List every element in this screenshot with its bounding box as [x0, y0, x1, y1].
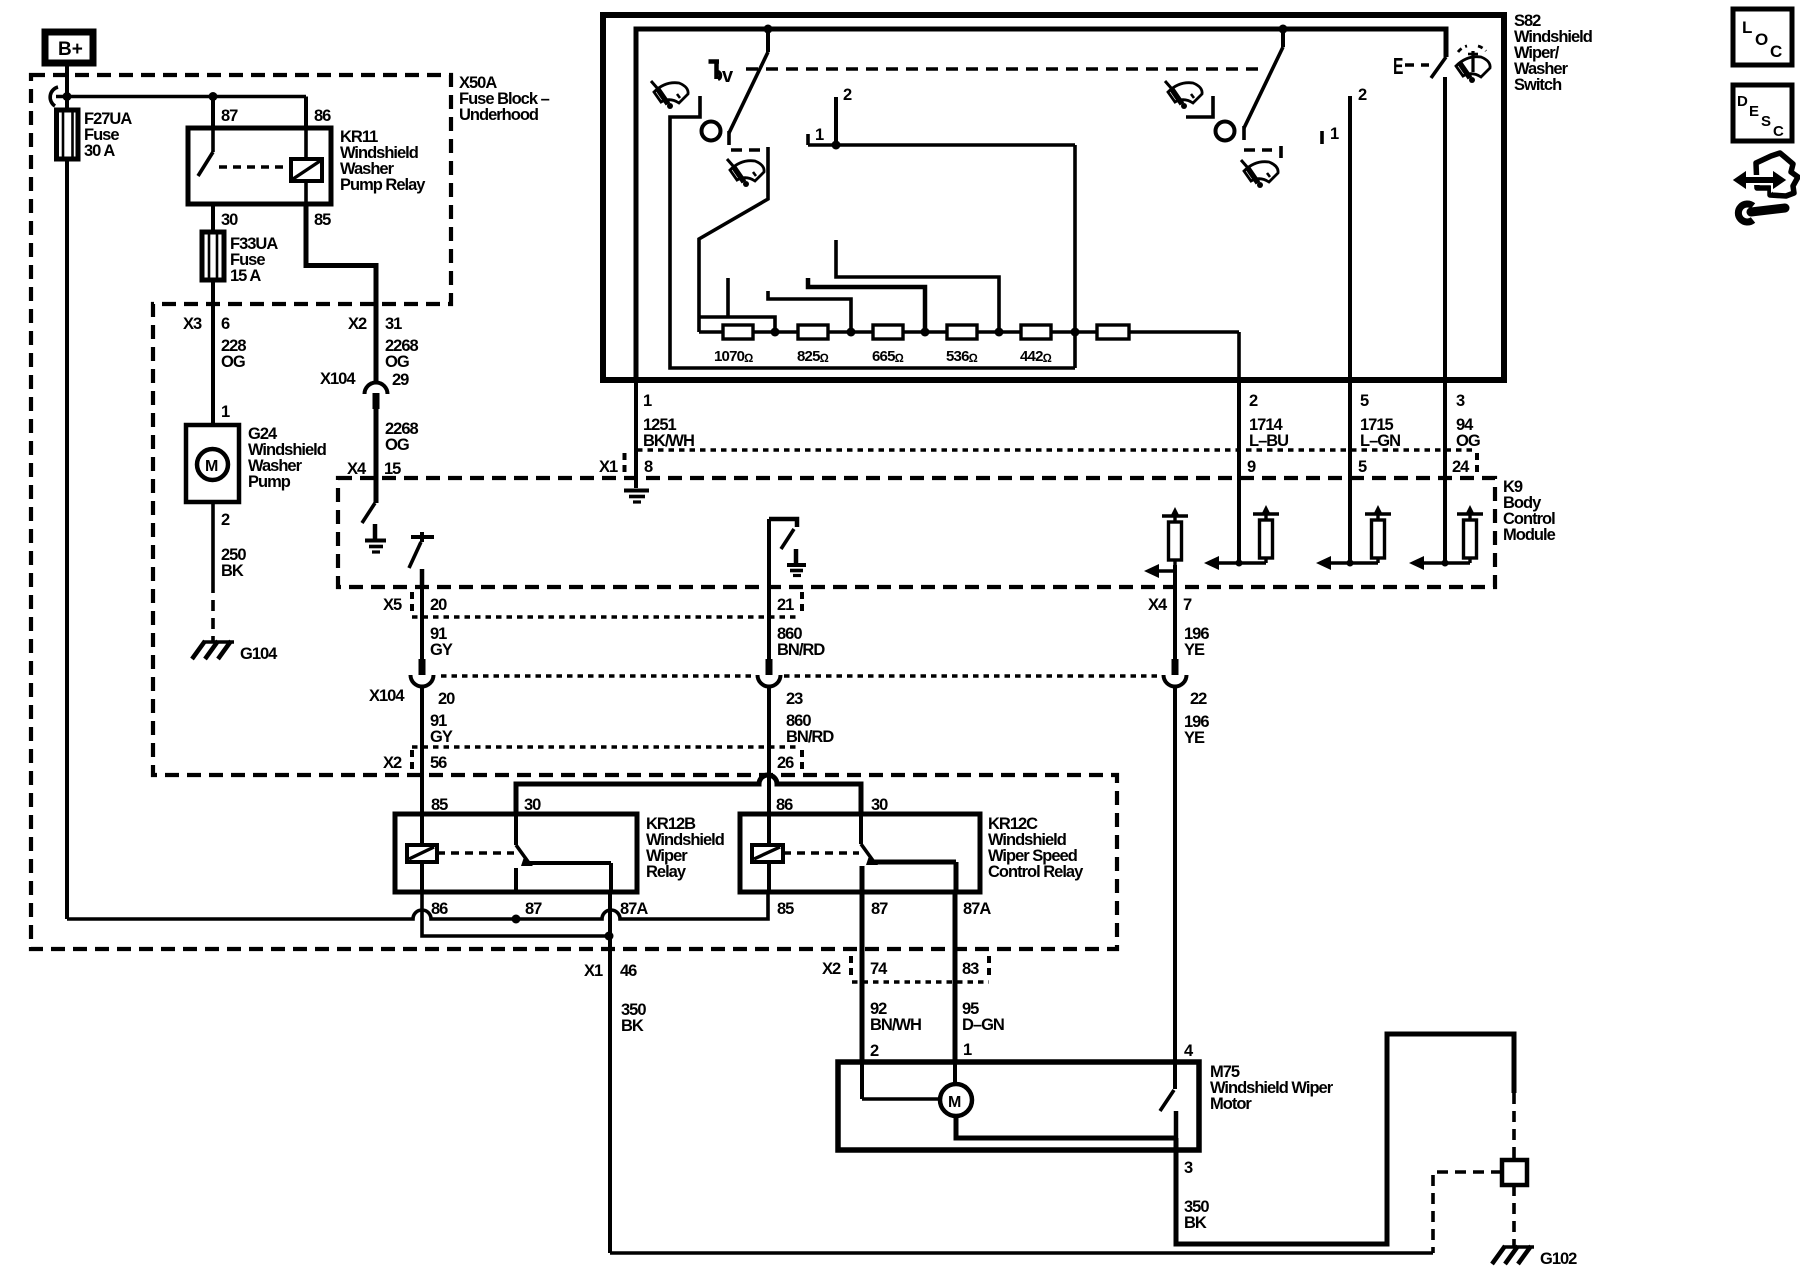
svg-text:83: 83: [962, 960, 979, 978]
node washer spray icon: [1456, 46, 1490, 83]
svg-text:1: 1: [815, 126, 824, 144]
svg-text:X104: X104: [369, 687, 405, 705]
node rail junction B: [847, 328, 856, 337]
wire KR11 pin 85 to X2-31: [306, 204, 376, 382]
svg-text:20: 20: [430, 596, 447, 614]
node rail junction E: [1071, 328, 1080, 337]
svg-text:Module: Module: [1503, 526, 1556, 544]
node junction KR12B 87 on feed rail: [512, 915, 521, 924]
resistor 665 ohm: [872, 325, 904, 365]
node BCM input pin 5 with pullup: [1316, 505, 1391, 570]
node wiper icon low: [1165, 81, 1202, 109]
motor M75 windshield wiper motor: [838, 1042, 1334, 1150]
wire connector plane dotted X5 row: [412, 615, 800, 619]
ground BCM internal for 1251: [624, 491, 649, 503]
node INT position dashes switch2: [1244, 146, 1281, 158]
node G102 ring terminal square: [1502, 1160, 1527, 1185]
relay KR11 windshield washer pump relay: [188, 107, 426, 229]
node wiper icon wash2: [1241, 160, 1278, 188]
svg-text:C: C: [1770, 42, 1782, 61]
wire 860 BN/RD lower segment: [769, 687, 834, 814]
svg-text:D: D: [1737, 93, 1748, 110]
icon LOC box: [1733, 9, 1792, 65]
wire ladder tap riser to rail junction E: [1073, 145, 1077, 368]
svg-text:X3: X3: [183, 315, 202, 333]
resistor 442 ohm: [1020, 325, 1052, 365]
svg-text:56: 56: [430, 754, 447, 772]
relay KR12B windshield wiper relay: [395, 796, 724, 918]
node X5 pin 21 label row: [777, 592, 802, 616]
svg-text:BK: BK: [621, 1017, 644, 1035]
wire feed rail hook (page continuation arc): [50, 87, 58, 106]
svg-text:Underhood: Underhood: [459, 106, 538, 124]
svg-text:BN/RD: BN/RD: [777, 641, 825, 659]
wire S82 pin 1 to BCM ground 1251 BK/WH: [636, 380, 694, 488]
resistor 1070 ohm: [714, 325, 753, 365]
svg-text:O: O: [1755, 30, 1768, 49]
svg-text:v: v: [722, 65, 734, 87]
svg-text:2: 2: [1358, 86, 1367, 104]
svg-text:86: 86: [431, 900, 448, 918]
wire ladder tap C: [808, 278, 925, 332]
switch S82 wiper rotary switch 1: [729, 29, 768, 145]
node BCM input pin 9 with pullup: [1204, 505, 1279, 570]
svg-text:G102: G102: [1540, 1250, 1577, 1268]
svg-text:X2: X2: [383, 754, 402, 772]
node junction B+ bus / feed rail: [63, 92, 72, 101]
wire KR12B 87A down to X1-46: [608, 892, 612, 1253]
node low contact stub: [1186, 96, 1213, 117]
svg-text:BN/RD: BN/RD: [786, 728, 834, 746]
svg-text:X1: X1: [584, 962, 603, 980]
svg-text:20: 20: [438, 690, 455, 708]
node X104 pin 22 inline connector on 196 YE: [1164, 659, 1208, 708]
svg-text:BK: BK: [1184, 1214, 1207, 1232]
svg-text:Switch: Switch: [1514, 76, 1562, 94]
svg-text:OG: OG: [385, 436, 409, 454]
motor G24 windshield washer pump: [186, 403, 326, 582]
svg-text:OG: OG: [221, 353, 245, 371]
svg-text:L: L: [1742, 18, 1752, 37]
node X104 pin 23 inline connector: [758, 659, 804, 708]
svg-text:15: 15: [384, 460, 401, 478]
svg-text:2: 2: [870, 1042, 879, 1060]
svg-text:BK: BK: [221, 562, 244, 580]
svg-text:85: 85: [314, 211, 331, 229]
svg-text:22: 22: [1190, 690, 1207, 708]
svg-text:X1: X1: [599, 458, 618, 476]
ground G104: [192, 641, 278, 663]
wire label 95 D-GN: [962, 1000, 1004, 1059]
wire 196 YE from BCM X4-7 to motor: [1148, 587, 1209, 1062]
svg-text:1070Ω: 1070Ω: [714, 348, 753, 365]
svg-text:825Ω: 825Ω: [797, 348, 829, 365]
svg-text:6: 6: [221, 315, 230, 333]
node X104 pin 20 inline connector: [369, 659, 455, 708]
node mist position symbol: [709, 60, 735, 88]
wire relay common feed 30-30 with hop: [516, 775, 861, 814]
wire position 2 contact switch2 to pin 5: [1350, 86, 1367, 380]
svg-text:E: E: [1749, 103, 1759, 120]
svg-text:74: 74: [870, 960, 888, 978]
wire KR12C 87 to motor pin 2 92 BN/WH: [860, 892, 865, 1099]
svg-text:BN/WH: BN/WH: [870, 1016, 921, 1034]
node rail junction C: [921, 328, 930, 337]
wire 91 GY lower segment: [422, 687, 453, 814]
wire KR12B 86 to 87A link: [422, 892, 609, 936]
svg-text:30: 30: [871, 796, 888, 814]
svg-text:1: 1: [221, 403, 230, 421]
node rail junction D: [995, 328, 1004, 337]
svg-text:442Ω: 442Ω: [1020, 348, 1052, 365]
node X2 pin 56 label row: [383, 750, 447, 774]
svg-text:29: 29: [392, 371, 409, 389]
svg-text:OG: OG: [1456, 432, 1480, 450]
svg-text:X2: X2: [348, 315, 367, 333]
svg-text:30: 30: [221, 211, 238, 229]
wire 2268 OG to BCM X4-15: [374, 408, 379, 503]
resistor unlabeled: [1097, 325, 1129, 339]
svg-text:YE: YE: [1184, 729, 1205, 747]
svg-text:E: E: [1393, 54, 1403, 80]
node X2 pin 26 label row: [777, 750, 802, 774]
svg-text:L–GN: L–GN: [1360, 432, 1400, 450]
wire horizontal feed rail y96.5 to KR11: [56, 95, 306, 99]
svg-text:Relay: Relay: [646, 863, 687, 881]
svg-text:GY: GY: [430, 728, 453, 746]
svg-text:Pump: Pump: [248, 473, 291, 491]
svg-text:M: M: [948, 1094, 961, 1111]
svg-text:87: 87: [871, 900, 888, 918]
wire ladder tap A: [700, 278, 775, 332]
svg-text:23: 23: [786, 690, 803, 708]
node BCM input pin 24 with pullup: [1409, 505, 1483, 570]
svg-text:87: 87: [525, 900, 542, 918]
svg-text:YE: YE: [1184, 641, 1205, 659]
switch S82 speed rotary switch 2: [1244, 29, 1283, 140]
wire S82 pin 2 to BCM pin 9 1714 L-BU: [1239, 380, 1288, 563]
resistor ladder rail: [699, 330, 1239, 334]
wire S82 pin 3 to BCM pin 24 94 OG: [1445, 380, 1480, 563]
svg-text:2: 2: [843, 86, 852, 104]
svg-text:21: 21: [777, 596, 794, 614]
node X3 pin 6 label row: [183, 315, 246, 371]
svg-text:Control Relay: Control Relay: [988, 863, 1084, 881]
node junction feed rail / KR11 pin 87: [209, 92, 218, 101]
resistor 536 ohm: [946, 325, 978, 365]
node X1 pin 8 label row: [599, 453, 653, 477]
wire ladder tap D: [836, 240, 999, 332]
svg-text:Pump Relay: Pump Relay: [340, 176, 426, 194]
svg-text:OG: OG: [385, 353, 409, 371]
switch BCM driver to X5-21 with ground: [769, 519, 806, 587]
svg-text:GY: GY: [430, 641, 453, 659]
svg-text:S: S: [1761, 113, 1771, 130]
module K9 body control module dashed box: [338, 478, 1556, 587]
wire KR11 pin 86 drop: [304, 97, 308, 129]
icon DESC box: [1733, 85, 1792, 141]
node X2 pin 31 label row: [348, 315, 419, 371]
switch BCM driver to X5-20: [409, 532, 434, 587]
svg-text:1: 1: [643, 392, 652, 410]
node junction top rail / speed switch pivot: [1279, 25, 1288, 34]
wire S82 internal bus: pin1 riser, top rail, washer drop: [636, 29, 1446, 380]
node OFF position circle switch1: [702, 122, 721, 141]
svg-text:3: 3: [1456, 392, 1465, 410]
wire B+ vertical bus (x67) down to relay feed rail: [65, 64, 69, 919]
node X5 pin 20 label row: [383, 592, 447, 616]
node position 2 contact switch1: [832, 86, 853, 150]
svg-text:X2: X2: [822, 960, 841, 978]
wire connector plane dotted X2 row: [412, 745, 800, 749]
wire 91 GY upper segment: [422, 587, 453, 663]
svg-text:85: 85: [431, 796, 448, 814]
wire INT contact to resistor ladder rail: [699, 147, 768, 332]
wire S82 pin 5 to BCM pin 5 1715 L-GN: [1350, 380, 1400, 563]
ground BCM internal for X4-15: [365, 524, 386, 552]
ground G102: [1492, 1246, 1577, 1268]
svg-text:1: 1: [963, 1041, 972, 1059]
wire rail to S82 pin 2 drop: [1237, 332, 1241, 380]
wire label 92 BN/WH: [870, 1000, 921, 1060]
resistor 825 ohm: [797, 325, 829, 365]
svg-text:46: 46: [620, 962, 637, 980]
wire connector plane dotted X104 row: [441, 674, 755, 678]
svg-text:5: 5: [1360, 392, 1369, 410]
svg-text:2: 2: [1249, 392, 1258, 410]
svg-text:B+: B+: [58, 39, 83, 60]
svg-text:87: 87: [221, 107, 238, 125]
node rail junction A: [771, 328, 780, 337]
svg-text:D–GN: D–GN: [962, 1016, 1004, 1034]
wire motor pin 3 350 BK to G102: [1176, 1034, 1514, 1244]
svg-text:1: 1: [1330, 125, 1339, 143]
svg-text:5: 5: [1358, 458, 1367, 476]
svg-text:BK/WH: BK/WH: [643, 432, 694, 450]
wire KR12C 87A to motor pin 1 95 D-GN: [953, 892, 958, 1084]
node position 1 contact switch1: [808, 126, 1075, 145]
wire dashed branch to 350 BK bus: [1433, 1172, 1502, 1253]
icon navigation arrows: [1731, 153, 1798, 196]
node junction 87A wire: [605, 932, 614, 941]
svg-text:8: 8: [644, 458, 653, 476]
svg-text:G104: G104: [240, 645, 278, 663]
wire ladder tap B: [768, 291, 851, 332]
svg-text:X4: X4: [347, 460, 367, 478]
fuse F27UA 30A: [57, 110, 133, 160]
svg-text:3: 3: [1184, 1159, 1193, 1177]
svg-text:L–BU: L–BU: [1249, 432, 1288, 450]
relay KR12C windshield wiper speed control relay: [740, 796, 1084, 918]
svg-text:X5: X5: [383, 596, 402, 614]
svg-text:30 A: 30 A: [84, 142, 115, 160]
node junction top rail / wiper switch pivot: [764, 25, 773, 34]
node X1 pin 46 label row: [584, 962, 646, 1035]
node OFF position circle switch2: [1216, 122, 1235, 141]
svg-text:665Ω: 665Ω: [872, 348, 904, 365]
node BCM output X4-7 with pullup: [1144, 507, 1188, 587]
svg-text:2: 2: [221, 511, 230, 529]
wire 350 BK ground bus bottom: [610, 1251, 1433, 1255]
node X2 pin 74 83 connector row: [822, 956, 989, 982]
node wiper icon mist: [651, 81, 688, 109]
wire dashed ground lead to G102 connector: [1512, 1093, 1516, 1160]
svg-text:15 A: 15 A: [230, 267, 261, 285]
svg-text:31: 31: [385, 315, 402, 333]
wire 860 BN/RD upper segment: [769, 587, 825, 663]
switch BCM wiper relay driver X4-15 to ground: [362, 478, 376, 523]
svg-text:536Ω: 536Ω: [946, 348, 978, 365]
svg-text:86: 86: [314, 107, 331, 125]
wire KR11 pin 87 drop: [211, 97, 215, 129]
icon wrench: [1738, 204, 1785, 222]
svg-text:7: 7: [1183, 596, 1192, 614]
wire mechanical link dashed S82: [746, 67, 1258, 71]
svg-text:26: 26: [777, 754, 794, 772]
node X4 pin 15 label row: [347, 460, 401, 478]
fuse block X50A dashed outline polygon: [31, 75, 1117, 949]
svg-text:C: C: [1773, 123, 1784, 140]
switch S82 windshield wiper/washer switch box: [603, 12, 1592, 380]
svg-text:Motor: Motor: [1210, 1095, 1252, 1113]
wire connector plane dotted BCM top: [637, 448, 1477, 452]
svg-text:M: M: [205, 458, 218, 475]
wire 250 BK dashed drop to G104: [211, 582, 215, 641]
node INT position dashes switch1: [731, 148, 762, 152]
switch S82 washer switch: [1393, 54, 1446, 380]
fuse F33UA 15A: [202, 232, 278, 285]
svg-text:87A: 87A: [963, 900, 991, 918]
wire dashed below terminal to ground: [1512, 1185, 1516, 1246]
node wiper icon INT: [727, 159, 764, 187]
svg-text:9: 9: [1247, 458, 1256, 476]
svg-text:87A: 87A: [620, 900, 648, 918]
wire mist contact to ladder bottom rail: [670, 96, 1075, 368]
svg-text:X4: X4: [1148, 596, 1168, 614]
svg-text:85: 85: [777, 900, 794, 918]
wire KR11 pin 30 down through fuse F33UA: [211, 204, 215, 425]
wire B+ rail to KR12C 85 with hops: [67, 892, 768, 919]
svg-text:86: 86: [776, 796, 793, 814]
B+ battery feed box: [45, 32, 93, 63]
svg-text:30: 30: [524, 796, 541, 814]
svg-text:X104: X104: [320, 370, 356, 388]
node position 1 contact switch2: [1322, 125, 1339, 144]
svg-text:24: 24: [1452, 458, 1470, 476]
node X104 pin 29 inline connector: [320, 370, 419, 454]
